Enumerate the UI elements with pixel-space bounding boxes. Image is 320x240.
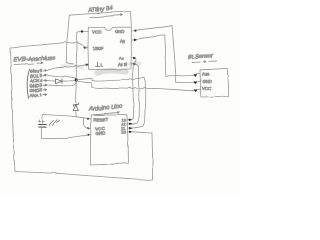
IC U1 ATtiny84 body [88, 27, 131, 69]
node: vertical V2 from top wire down through EVB wire crossing to ATtiny pin L [66, 15, 73, 64]
wire V1: ATtiny VCC down through crossings to hub, zener, reset rail [76, 32, 78, 79]
U3 pin GND stub label [194, 81, 201, 82]
connector J1 title underline [14, 62, 43, 65]
smudge under ATtiny [97, 71, 126, 73]
smudge near A4 wires [130, 63, 140, 64]
U1 pin L label and stub [96, 62, 100, 66]
U1 pin GND stub and dot [131, 30, 136, 32]
svg-text:L: L [101, 63, 104, 68]
svg-text:A4: A4 [119, 56, 124, 61]
svg-text:VCC: VCC [92, 30, 102, 35]
wire B: hub to IR sensor VCC [76, 81, 193, 91]
capacitor C1 polarity marks [39, 120, 45, 122]
U3 pin Aus stub label [194, 74, 201, 76]
svg-text:VCC: VCC [202, 86, 211, 91]
U2 pin GND stub label [88, 134, 91, 136]
svg-text:1: 1 [40, 92, 43, 97]
wire: row1 Blau to ATtiny pin L [47, 65, 88, 71]
svg-text:Aus: Aus [202, 71, 209, 76]
svg-text:RESET: RESET [94, 117, 109, 122]
svg-text:GND: GND [202, 79, 211, 84]
capacitor C1 value scribble [49, 120, 60, 126]
capacitor C1 plates [39, 124, 47, 127]
zener diode D2 [73, 103, 78, 106]
wire: EVB box top edge continuing to ATtiny pin 180F [11, 42, 89, 48]
connector J1 bracket [27, 69, 29, 98]
diode D1 on row4/ACK wire [47, 79, 56, 82]
wire: branch RESET rail down to Arduino VCC [83, 118, 88, 128]
wire: Arduino pin 10 to outer loop [132, 132, 153, 133]
IR sensor U3 body [200, 68, 229, 97]
svg-text:180F: 180F [93, 46, 104, 51]
wire: ATtiny A0 to corner down to IR sensor Aus [136, 34, 193, 76]
junction hub dot [75, 78, 78, 81]
wire: outer ground loop (left rail, bottom rail, right rail to Arduino pin 10) [11, 48, 153, 181]
svg-text:ANA: ANA [30, 92, 39, 97]
wire: row2 SCL to hub [47, 75, 77, 78]
capacitor C1 top lead and rail to RESET [42, 115, 88, 125]
wire: top wire from node above hub to ATtiny GND column [69, 12, 131, 28]
U2 title underline arrow [94, 111, 120, 114]
U2 pin RESET stub label [88, 118, 92, 120]
svg-text:GnD: GnD [115, 29, 125, 34]
U2 pin VCC stub label [88, 127, 91, 129]
svg-text:A0: A0 [120, 39, 125, 44]
svg-text:10: 10 [122, 130, 127, 135]
wire: ATtiny GND right to corner down to IR sensor GND [136, 25, 194, 82]
capacitor C1 bottom lead to GND rail [41, 127, 88, 138]
U1 pin VCC stub and dot [78, 30, 88, 33]
smudge at hub [62, 65, 82, 68]
title underline arrow [90, 14, 122, 18]
wire: ATtiny A4 staircase down to Arduino pin 13 [129, 58, 136, 120]
wire: row GND 3 up to hub [47, 82, 77, 86]
U3 pin VCC stub label [194, 89, 201, 91]
IC U2 Arduino Uno body (open-skewed rectangle) [90, 115, 128, 165]
svg-text:A3 3i: A3 3i [118, 62, 127, 67]
svg-text:GND: GND [96, 130, 106, 135]
wire: ATtiny A3 staircase down to Arduino pin 12 [132, 64, 139, 124]
U3 title underline [192, 61, 217, 63]
wire A: hub to staircase down to Arduino pin 11 [76, 77, 145, 128]
